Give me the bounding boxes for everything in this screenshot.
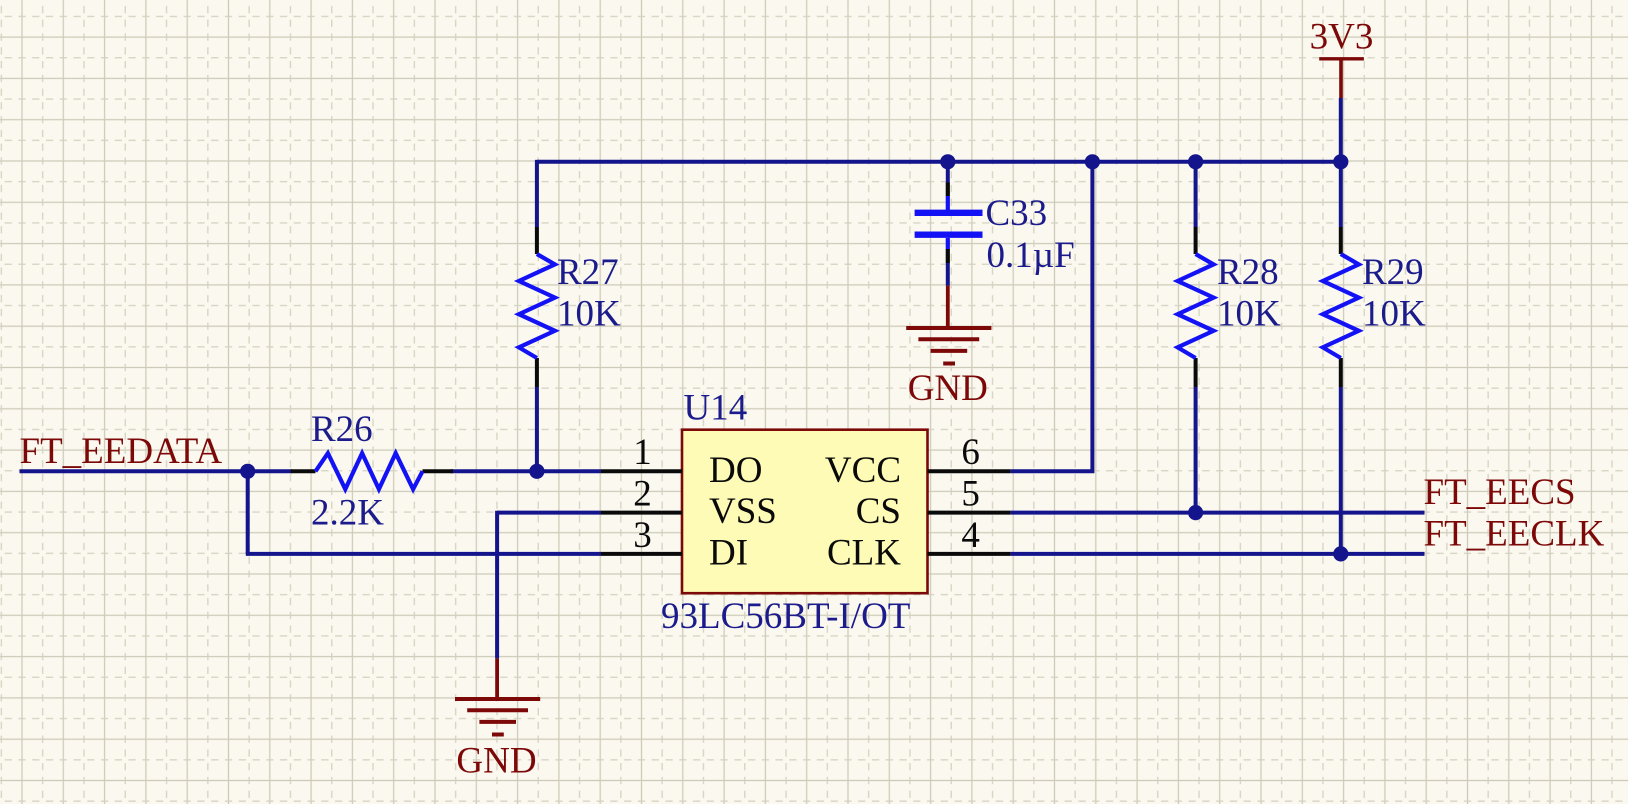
svg-text:10K: 10K xyxy=(1217,293,1281,334)
resistor R29 xyxy=(1323,227,1359,387)
wire C33 top link xyxy=(946,162,950,183)
wire R29 lower to CLK row xyxy=(1339,387,1343,554)
ground symbol GND C33 xyxy=(906,286,991,364)
resistor R28 xyxy=(1178,227,1214,387)
svg-text:2: 2 xyxy=(633,473,652,514)
wire DI row to pin 3 xyxy=(246,552,601,556)
svg-text:C33: C33 xyxy=(986,193,1048,234)
svg-text:FT_EEDATA: FT_EEDATA xyxy=(20,431,223,472)
junction dot R27 bottom xyxy=(529,464,544,479)
pin 5 line xyxy=(928,511,1011,515)
wire R27 column lower to FT_EEDATA net xyxy=(535,387,539,471)
wire FT_EEDATA left segment xyxy=(20,469,293,473)
wire R26 right to pin 1 xyxy=(451,469,602,473)
svg-text:DI: DI xyxy=(709,533,748,574)
svg-text:6: 6 xyxy=(961,432,980,473)
svg-text:2.2K: 2.2K xyxy=(311,493,384,534)
junction dot R29 CLK xyxy=(1333,546,1348,561)
wire VSS row to pin 2 xyxy=(497,511,601,515)
resistor R26 xyxy=(291,453,453,489)
svg-text:GND: GND xyxy=(456,741,536,782)
wire C33 bottom link xyxy=(946,263,950,286)
svg-text:DO: DO xyxy=(709,450,762,491)
junction dot node A xyxy=(240,464,255,479)
svg-text:R26: R26 xyxy=(311,409,373,450)
svg-text:R27: R27 xyxy=(557,252,619,293)
svg-text:VSS: VSS xyxy=(709,491,777,532)
svg-text:R28: R28 xyxy=(1217,252,1279,293)
svg-text:3: 3 xyxy=(633,515,652,556)
svg-text:VCC: VCC xyxy=(825,450,901,491)
svg-text:GND: GND xyxy=(908,368,988,409)
wire junction A down to DI row xyxy=(246,471,250,554)
resistor R27 xyxy=(519,227,555,387)
wire R28 upper link xyxy=(1194,162,1198,227)
svg-text:3V3: 3V3 xyxy=(1310,17,1374,58)
svg-text:10K: 10K xyxy=(557,293,621,334)
pin 6 line xyxy=(928,469,1011,473)
wire top bus from R27 top to 3V3 column xyxy=(537,160,1341,164)
svg-text:1: 1 xyxy=(633,432,652,473)
chip U14 body 93LC56BT xyxy=(682,430,928,594)
wire CLK row pin 4 to FT_EECLK label xyxy=(1010,552,1424,556)
power port 3V3 xyxy=(1319,59,1364,98)
wire VCC pin 6 to top bus xyxy=(1010,162,1092,472)
junction dot 3V3 R29 xyxy=(1333,154,1348,169)
svg-text:10K: 10K xyxy=(1362,293,1426,334)
wire VSS column down to GND xyxy=(495,511,499,659)
capacitor C33 xyxy=(915,183,983,264)
svg-text:5: 5 xyxy=(961,473,980,514)
svg-text:CLK: CLK xyxy=(827,533,901,574)
junction dot VCC top xyxy=(1085,154,1100,169)
wire R28 lower to CS row xyxy=(1194,387,1198,513)
svg-text:0.1µF: 0.1µF xyxy=(987,235,1075,276)
svg-text:R29: R29 xyxy=(1362,252,1424,293)
junction dot C33 top xyxy=(940,154,955,169)
svg-text:U14: U14 xyxy=(684,388,748,429)
svg-text:93LC56BT-I/OT: 93LC56BT-I/OT xyxy=(661,596,910,637)
svg-text:CS: CS xyxy=(856,491,901,532)
pin 3 line xyxy=(601,552,682,556)
wire R27 column upper xyxy=(535,160,539,227)
svg-text:FT_EECLK: FT_EECLK xyxy=(1424,514,1605,555)
wire CS row pin 5 to FT_EECS label xyxy=(1010,511,1424,515)
svg-text:FT_EECS: FT_EECS xyxy=(1424,472,1576,513)
junction dot R28 CS xyxy=(1188,505,1203,520)
pin 2 line xyxy=(601,511,682,515)
pin 4 line xyxy=(928,552,1011,556)
wire R29 upper link xyxy=(1339,162,1343,227)
junction dot R28 top xyxy=(1188,154,1203,169)
ground symbol GND VSS xyxy=(455,658,540,734)
pin 1 line xyxy=(601,469,682,473)
wire 3V3 column to top bus xyxy=(1339,98,1343,162)
svg-text:4: 4 xyxy=(961,515,980,556)
